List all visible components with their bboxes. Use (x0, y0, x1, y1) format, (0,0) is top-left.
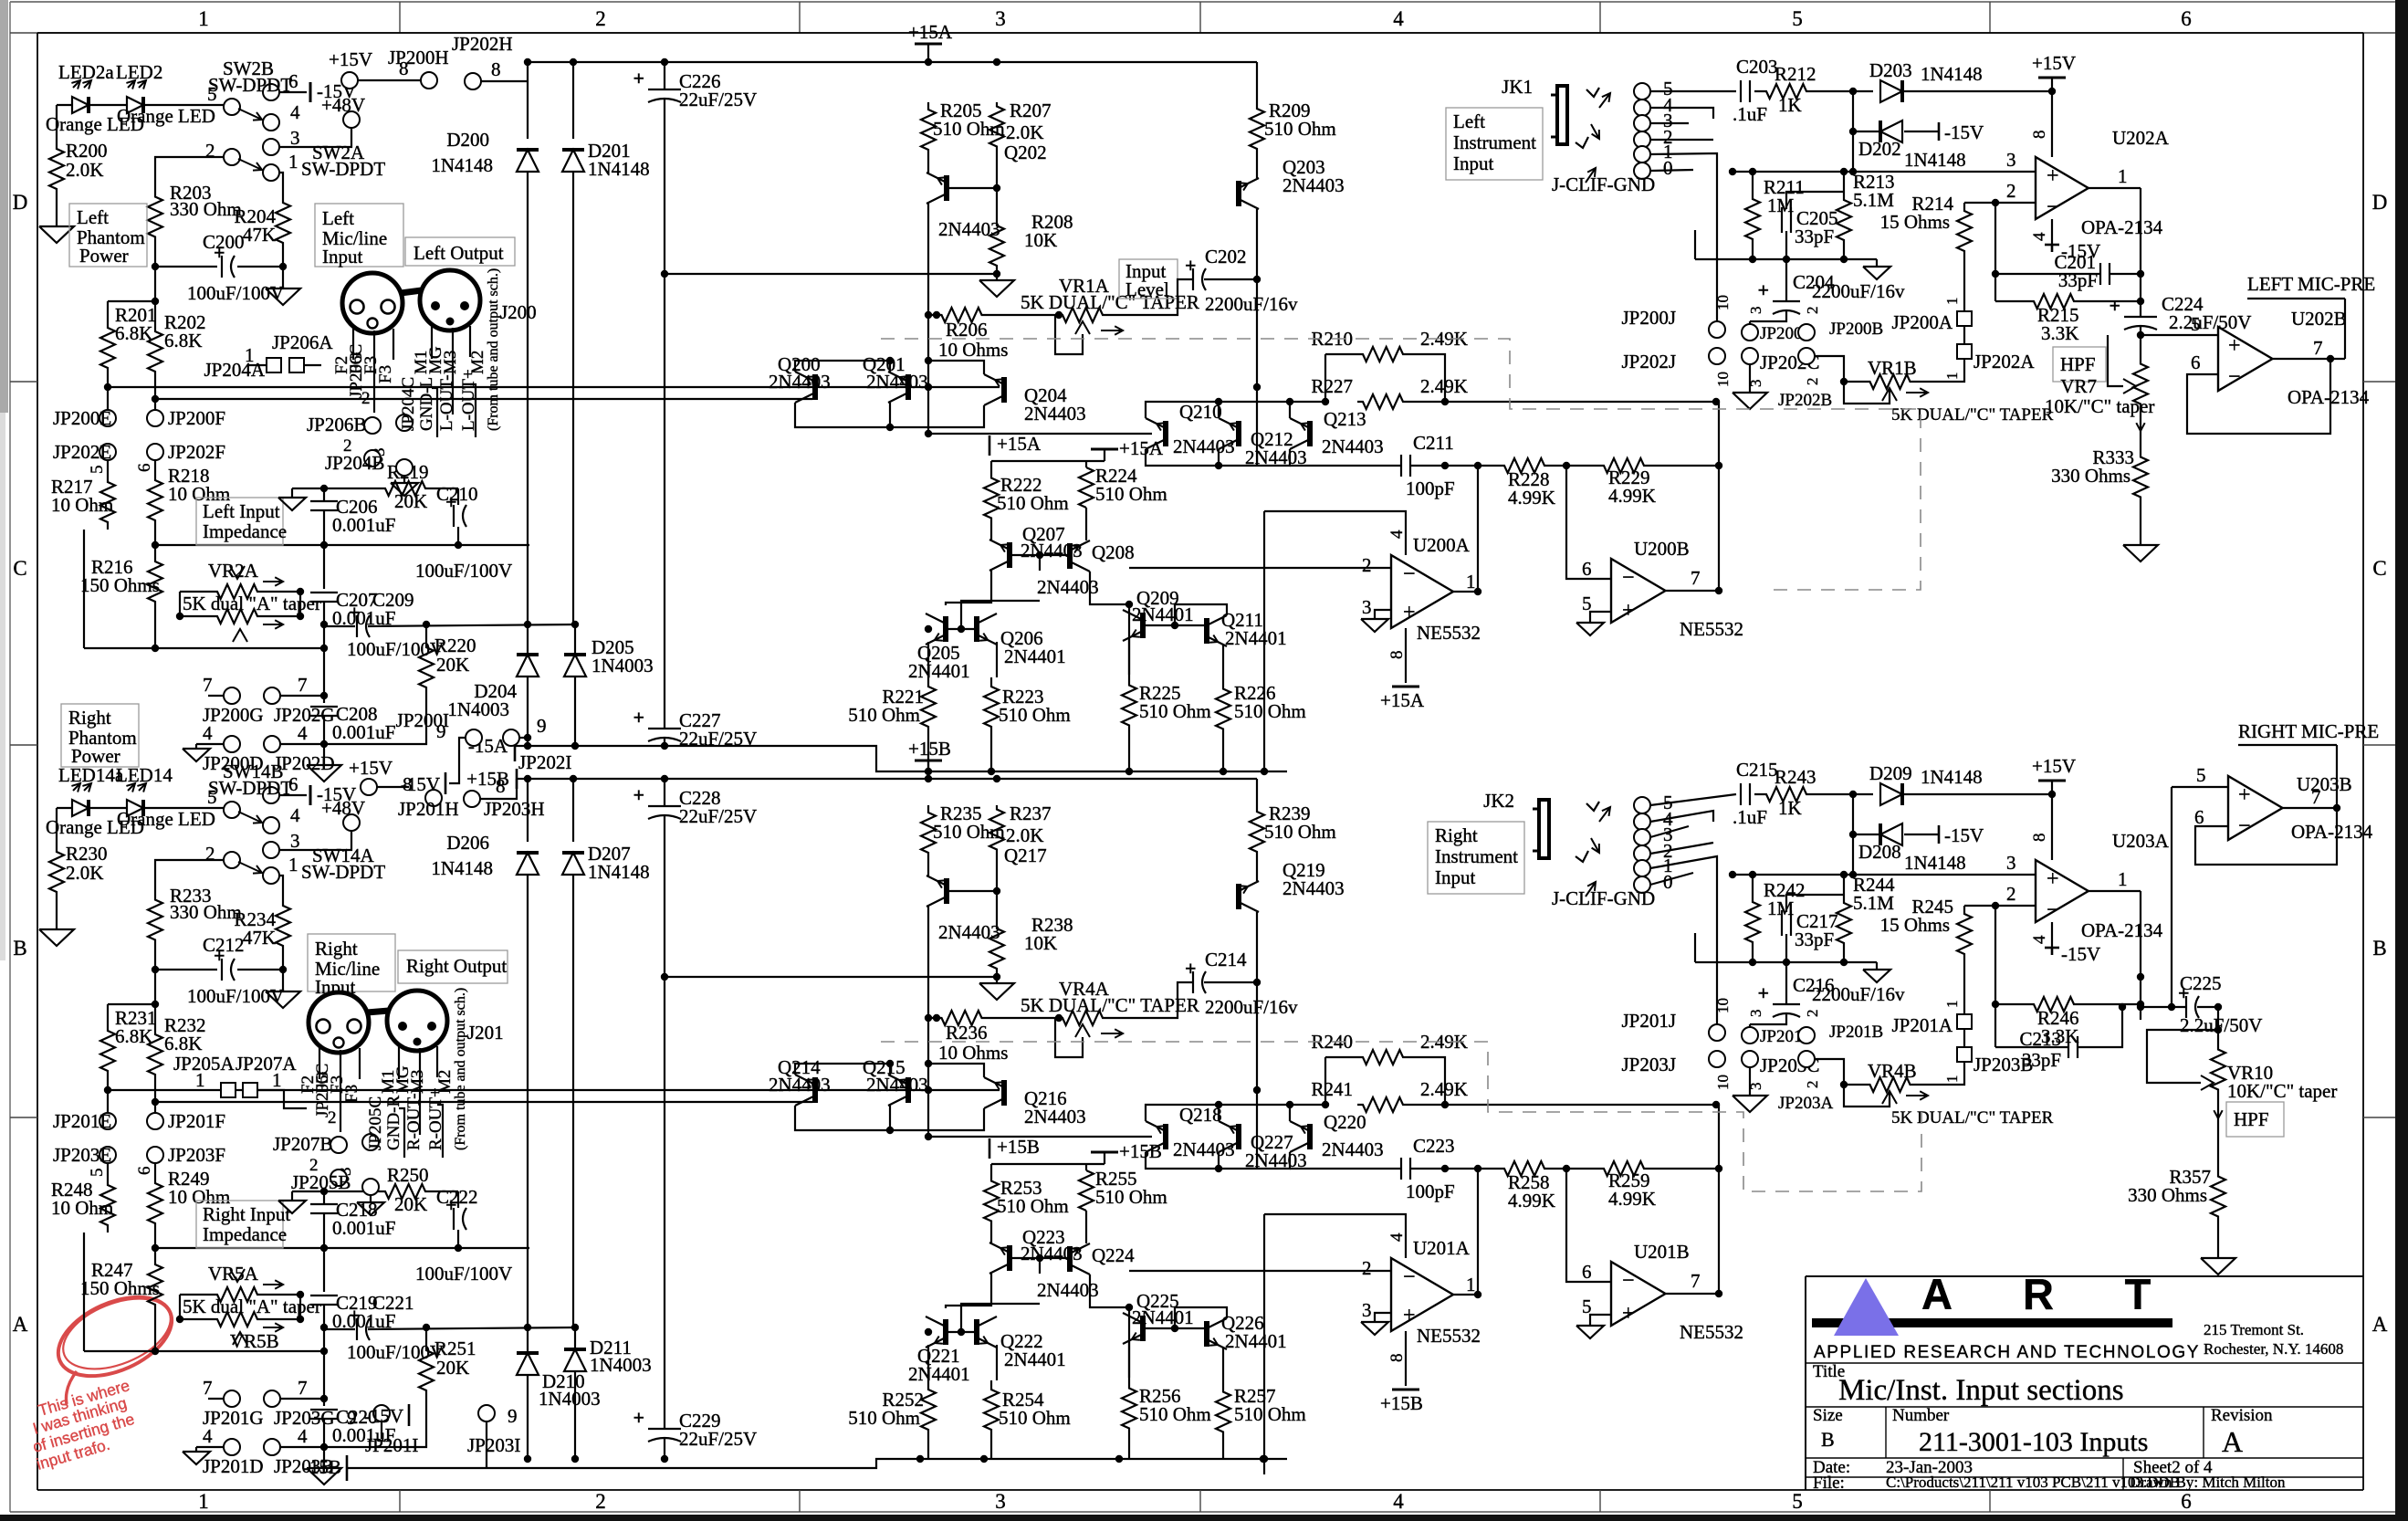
svg-text:2: 2 (2006, 180, 2016, 202)
wire (1750, 259, 1786, 324)
wire (1849, 91, 1857, 135)
svg-text:JP201I: JP201I (365, 1434, 418, 1456)
transistor Q209 (1123, 587, 1194, 641)
svg-text:F3: F3 (342, 1085, 361, 1103)
svg-text:6: 6 (135, 1167, 154, 1176)
resistor R253 (984, 1173, 1069, 1229)
net label J-CLIF-GND (1552, 173, 1655, 195)
svg-text:VR2A: VR2A (208, 560, 259, 582)
svg-text:150 Ohms: 150 Ohms (80, 1277, 160, 1299)
svg-text:4.99K: 4.99K (1508, 1190, 1555, 1212)
power -15V tick (2045, 943, 2100, 965)
svg-text:3: 3 (2006, 852, 2016, 874)
svg-text:150 Ohms: 150 Ohms (80, 574, 160, 596)
capacitor C200 (187, 231, 284, 304)
wire (1129, 638, 1223, 680)
wire (1853, 131, 1939, 132)
svg-text:-15B: -15B (303, 1456, 341, 1478)
resistor R258 (1497, 1161, 1555, 1212)
op-amp U203B (2194, 773, 2373, 843)
LED LED2 (116, 61, 215, 127)
svg-text:R: R (2023, 1270, 2054, 1318)
wire (1904, 88, 2056, 95)
ground (39, 226, 74, 243)
wire (1453, 1169, 1481, 1298)
svg-text:2: 2 (328, 1108, 337, 1128)
svg-text:2.0K: 2.0K (66, 159, 103, 181)
jumper JP203H (464, 775, 545, 820)
svg-text:0: 0 (1663, 871, 1673, 893)
svg-text:1: 1 (245, 344, 255, 366)
size field (1813, 1406, 1843, 1451)
svg-text:510 Ohm: 510 Ohm (1264, 118, 1336, 140)
svg-text:A: A (13, 1313, 28, 1336)
wire (432, 384, 476, 437)
svg-text:B: B (1821, 1428, 1835, 1451)
svg-text:1: 1 (272, 1069, 282, 1091)
resistor R206 (928, 308, 1008, 361)
note box Left Instrument Input (1446, 108, 1543, 180)
svg-text:22uF/25V: 22uF/25V (679, 1428, 757, 1450)
wire (991, 508, 1086, 571)
resistor R251 (419, 1337, 476, 1399)
LED LED2a (46, 61, 144, 135)
jumper JP201J (1621, 998, 1732, 1041)
resistor R240 (1311, 1031, 1467, 1065)
ground (1576, 623, 1604, 635)
connector J200 XLR female (342, 273, 403, 333)
svg-text:+: + (633, 1406, 644, 1429)
power +15B rail symbol (1091, 1140, 1162, 1164)
capacitor C201 (2054, 251, 2110, 291)
net label LEFT MIC-PRE (2247, 273, 2375, 299)
jack contacts (1634, 792, 1673, 893)
wire (1921, 1062, 1964, 1085)
svg-text:−: − (2047, 195, 2059, 219)
resistor R209 (1250, 100, 1336, 155)
wire (1729, 834, 2036, 878)
wire (2108, 335, 2123, 386)
svg-text:10K/"C" taper: 10K/"C" taper (2227, 1080, 2337, 1102)
wire (279, 876, 283, 895)
svg-text:LED2a: LED2a (58, 61, 114, 83)
svg-text:Q202: Q202 (1004, 142, 1047, 163)
svg-text:VR5A: VR5A (208, 1263, 259, 1285)
jumper JP200D (196, 722, 264, 774)
wire (661, 62, 668, 278)
svg-text:L-OUT-: L-OUT- (437, 374, 456, 431)
wire (2147, 1030, 2218, 1083)
jumper JP207B (273, 1108, 347, 1155)
power +15V rail symbol (2032, 52, 2076, 91)
wire (661, 779, 668, 981)
wire (524, 875, 573, 1331)
svg-text:4.99K: 4.99K (1608, 1188, 1656, 1210)
wire (1806, 871, 1877, 970)
note box Left Mic/line Input (315, 204, 403, 267)
svg-text:7: 7 (298, 674, 308, 696)
wire (152, 251, 287, 301)
svg-text:A: A (2222, 1425, 2243, 1458)
svg-text:2: 2 (595, 7, 606, 30)
svg-text:7: 7 (298, 1377, 308, 1399)
potentiometer VR2A (183, 560, 321, 642)
svg-text:−: − (1622, 1269, 1635, 1293)
svg-text:−: − (2047, 898, 2059, 922)
wire (1129, 1214, 1406, 1474)
diode D210 (517, 1353, 601, 1410)
svg-text:SW-DPDT: SW-DPDT (301, 861, 385, 883)
svg-text:JP201H: JP201H (398, 798, 459, 820)
note box HPF (2226, 1102, 2284, 1137)
wire (1749, 1067, 1751, 1096)
power +15V (349, 757, 393, 795)
svg-text:6: 6 (1582, 1261, 1592, 1283)
wire (991, 1211, 1086, 1274)
svg-text:JP200H: JP200H (388, 47, 449, 68)
potentiometer VR7 (2045, 360, 2154, 417)
power +15A rail symbol (1380, 687, 1425, 711)
svg-text:JP203I: JP203I (467, 1434, 520, 1456)
capacitor C215 (1733, 759, 1778, 828)
svg-text:Right Input: Right Input (203, 1203, 290, 1225)
svg-text:JP202A: JP202A (1974, 351, 2035, 372)
wire (155, 860, 224, 886)
capacitor C219 (310, 1292, 395, 1332)
wire (1256, 62, 1258, 102)
wire (152, 1098, 812, 1106)
wire (528, 1324, 579, 1353)
svg-text:510 Ohm: 510 Ohm (1139, 700, 1211, 722)
resistor R236 (928, 1011, 1008, 1064)
jumper JP202G (264, 674, 335, 726)
svg-text:U203B: U203B (2297, 773, 2352, 795)
svg-text:1: 1 (2118, 165, 2128, 187)
transistor Q211 (1207, 609, 1287, 649)
svg-text:F3: F3 (376, 365, 395, 383)
svg-text:R236: R236 (946, 1022, 988, 1044)
svg-text:1: 1 (195, 1069, 205, 1091)
svg-text:Instrument: Instrument (1453, 131, 1536, 153)
svg-text:+15V: +15V (329, 48, 372, 70)
svg-text:2N4403: 2N4403 (769, 1074, 831, 1096)
ART logo triangle (1834, 1278, 1899, 1336)
jumper JP202F (147, 441, 225, 463)
ART logo letters (1921, 1270, 2151, 1318)
svg-text:R212: R212 (1775, 63, 1816, 85)
dashed region outline (881, 1042, 1921, 1191)
wire (320, 1419, 328, 1468)
svg-text:510 Ohm: 510 Ohm (997, 492, 1069, 514)
svg-text:J201: J201 (467, 1022, 504, 1044)
jumper JP202C (1742, 348, 1819, 387)
svg-text:2.2uF/50V: 2.2uF/50V (2180, 1014, 2262, 1036)
jumper JP203I (467, 1405, 520, 1468)
op-amp U201B (1582, 1241, 1743, 1343)
svg-text:2: 2 (205, 843, 215, 865)
svg-text:2N4403: 2N4403 (1283, 174, 1345, 196)
svg-text:2N4401: 2N4401 (1225, 1330, 1287, 1352)
transistor Q206 (977, 614, 1066, 667)
wire (2172, 764, 2228, 1007)
svg-text:C200: C200 (203, 231, 245, 253)
wire (661, 1327, 668, 1463)
transistor Q225 (1123, 1290, 1194, 1344)
wire (1921, 359, 1964, 382)
resistor R234 (234, 895, 290, 957)
svg-text:Q208: Q208 (1092, 541, 1135, 563)
svg-text:10 Ohms: 10 Ohms (938, 1042, 1008, 1064)
svg-text:JP203J: JP203J (1621, 1054, 1676, 1075)
wire (795, 357, 894, 372)
resistor R222 (984, 470, 1069, 526)
ground (1733, 1096, 1767, 1112)
svg-text:2N4403: 2N4403 (866, 1074, 928, 1096)
svg-text:C215: C215 (1736, 759, 1778, 781)
svg-text:J-CLIF-GND: J-CLIF-GND (1552, 887, 1655, 909)
svg-text:3: 3 (290, 830, 300, 852)
svg-text:2.0K: 2.0K (1006, 121, 1043, 143)
svg-text:C214: C214 (1205, 949, 1247, 970)
svg-text:C212: C212 (203, 934, 245, 956)
svg-text:8: 8 (2030, 131, 2049, 140)
svg-text:.1uF: .1uF (1733, 103, 1767, 125)
svg-text:C202: C202 (1205, 246, 1247, 267)
capacitor C218 (310, 1199, 395, 1239)
svg-text:C225: C225 (2180, 972, 2222, 994)
jumper JP204A (204, 344, 281, 381)
wire (2187, 359, 2330, 434)
svg-text:3: 3 (1362, 1299, 1372, 1321)
title field label (1813, 1362, 1845, 1381)
resistor R233 (148, 885, 242, 954)
wire (84, 1233, 328, 1355)
wire (56, 199, 58, 226)
svg-text:5: 5 (88, 1169, 107, 1178)
jumper JP202B (1778, 348, 1832, 410)
svg-text:6: 6 (288, 773, 298, 795)
power -15V tick (401, 772, 445, 795)
wire (1253, 858, 1261, 1137)
drawing title (1838, 1374, 2124, 1407)
svg-text:JP202F: JP202F (168, 441, 225, 463)
resistor R202 (148, 311, 206, 382)
resistor R228 (1497, 458, 1555, 509)
svg-text:+: + (2238, 783, 2251, 807)
ground (1361, 1322, 1388, 1335)
capacitor C220 (310, 1406, 395, 1446)
capacitor C211 (1401, 432, 1455, 499)
svg-text:3: 3 (1362, 596, 1372, 618)
svg-text:5: 5 (88, 466, 107, 475)
capacitor C210 (415, 483, 512, 582)
transistor Q207 (989, 523, 1083, 571)
LED LED14a (46, 764, 144, 838)
svg-text:330 Ohms: 330 Ohms (2051, 465, 2131, 487)
resistor R248 (51, 1178, 115, 1233)
capacitor C229 (633, 1406, 757, 1450)
jumper pad (370, 448, 413, 477)
svg-text:2N4401: 2N4401 (908, 660, 970, 682)
svg-text:JP203F: JP203F (168, 1144, 225, 1166)
wire (2051, 91, 2053, 245)
svg-text:D202: D202 (1858, 138, 1901, 160)
wire (1995, 1003, 2126, 1047)
diode D208 (1858, 823, 1966, 874)
jumper JP203G (264, 1377, 335, 1429)
svg-text:JP205B: JP205B (291, 1171, 351, 1193)
resistor R246 (2026, 997, 2081, 1047)
svg-text:3.3K: 3.3K (2041, 322, 2078, 344)
svg-text:+15B: +15B (997, 1136, 1040, 1158)
wire (1566, 466, 1611, 579)
svg-text:NE5532: NE5532 (1417, 1325, 1481, 1347)
jumper JP203B (1957, 1047, 2033, 1075)
connector J201 XLR male (367, 991, 504, 1051)
wire (1992, 203, 2141, 301)
revision field (2211, 1406, 2273, 1458)
svg-text:C: C (2372, 557, 2386, 580)
wire (1849, 794, 1857, 838)
capacitor C202 (1185, 246, 1298, 315)
wire (1146, 434, 1290, 469)
resistor R215 (2026, 294, 2081, 344)
svg-text:OPA-2134: OPA-2134 (2081, 216, 2163, 238)
resistor R207 (989, 100, 1052, 151)
svg-text:+15A: +15A (908, 21, 953, 43)
wire (108, 1081, 155, 1102)
svg-text:1: 1 (198, 1490, 209, 1513)
op-amp U202A (2030, 127, 2170, 241)
svg-text:APPLIED RESEARCH AND TECHNOLOG: APPLIED RESEARCH AND TECHNOLOGY (1814, 1343, 2200, 1362)
wire (2137, 313, 2218, 360)
svg-text:−: − (1622, 566, 1635, 590)
svg-text:2: 2 (1804, 1010, 1821, 1018)
svg-text:(From tube and output sch.): (From tube and output sch.) (486, 268, 501, 431)
wire (88, 1163, 155, 1178)
resistor R205 (921, 100, 1005, 157)
wire (1590, 1315, 1611, 1326)
svg-text:+15B: +15B (1380, 1392, 1423, 1414)
capacitor C206 (310, 496, 395, 536)
svg-text:510 Ohm: 510 Ohm (848, 704, 920, 726)
wire (1815, 1059, 1890, 1107)
svg-text:6.8K: 6.8K (164, 330, 202, 351)
svg-text:D208: D208 (1858, 841, 1901, 863)
note box Input Level (1119, 259, 1178, 300)
svg-text:2N4401: 2N4401 (908, 1363, 970, 1385)
wire (925, 601, 1040, 677)
svg-text:VR1B: VR1B (1868, 357, 1917, 379)
svg-text:D200: D200 (446, 129, 489, 151)
wire (1146, 1137, 1290, 1172)
wire (324, 621, 578, 628)
wire (664, 274, 665, 624)
potentiometer VR1B (1859, 357, 2054, 425)
svg-text:R243: R243 (1775, 766, 1816, 788)
capacitor C222 (415, 1186, 512, 1285)
svg-text:4: 4 (1387, 530, 1407, 539)
svg-text:6: 6 (2191, 351, 2201, 373)
op-amp U203A (2030, 830, 2170, 944)
wire (528, 621, 579, 655)
resistor R214 (1880, 193, 1972, 259)
svg-text:1: 1 (288, 854, 298, 876)
svg-text:15 Ohms: 15 Ohms (1880, 914, 1950, 936)
LED LED14 (116, 764, 215, 830)
wire (1995, 274, 2144, 317)
wire (248, 364, 321, 366)
ground (1361, 619, 1388, 632)
svg-text:Right Output: Right Output (406, 955, 507, 977)
svg-text:2: 2 (309, 1156, 319, 1175)
resistor R200 (49, 139, 108, 199)
svg-text:+: + (2047, 164, 2059, 188)
svg-text:5: 5 (207, 83, 217, 105)
svg-text:4: 4 (290, 804, 300, 826)
svg-text:15 Ohms: 15 Ohms (1880, 211, 1950, 233)
net label RIGHT MIC-PRE (2238, 720, 2379, 745)
svg-text:Left Input: Left Input (203, 500, 280, 522)
wire (108, 298, 159, 321)
capacitor C208 (310, 703, 395, 743)
svg-text:9: 9 (537, 715, 547, 737)
ground (39, 929, 74, 946)
wire (1146, 398, 1325, 418)
svg-text:330 Ohm: 330 Ohm (170, 901, 242, 923)
svg-text:C211: C211 (1413, 432, 1454, 454)
wire (524, 775, 1257, 782)
transistor Q214 (769, 1056, 831, 1106)
svg-text:JP201J: JP201J (1621, 1010, 1676, 1032)
wire (152, 528, 324, 559)
capacitor C214 (1185, 949, 1298, 1018)
power +15B tick (466, 768, 528, 790)
wire (991, 461, 1105, 470)
svg-text:1: 1 (1466, 1274, 1476, 1295)
svg-text:C203: C203 (1736, 56, 1778, 78)
capacitor C213 (2019, 1028, 2078, 1071)
wire (279, 794, 307, 796)
svg-text:C209: C209 (372, 589, 414, 611)
svg-text:JP202B: JP202B (1778, 391, 1832, 410)
svg-text:2200uF/16v: 2200uF/16v (1812, 983, 1905, 1005)
svg-text:Input: Input (1435, 866, 1475, 888)
wire (2282, 745, 2340, 812)
svg-text:9: 9 (436, 720, 446, 742)
svg-text:5: 5 (207, 786, 217, 808)
svg-text:JP203E: JP203E (53, 1144, 111, 1166)
diode D207 (562, 843, 650, 883)
wire (176, 588, 304, 620)
svg-text:33pF: 33pF (2058, 269, 2098, 291)
svg-text:5: 5 (2196, 764, 2206, 786)
svg-text:510 Ohm: 510 Ohm (848, 1407, 920, 1429)
svg-text:A: A (1921, 1270, 1953, 1318)
svg-text:2N4403: 2N4403 (1322, 1138, 1384, 1160)
svg-text:Q218: Q218 (1179, 1104, 1222, 1126)
capacitor C225 (2178, 972, 2262, 1036)
ground (2123, 545, 2158, 561)
svg-text:2: 2 (205, 140, 215, 162)
wire (2140, 498, 2141, 545)
svg-text:8: 8 (491, 58, 501, 80)
pin labels female (332, 344, 395, 398)
resistor R201 (100, 304, 157, 378)
resistor R203 (148, 182, 242, 251)
svg-text:6: 6 (1582, 558, 1592, 580)
op-amp U202B (2191, 308, 2370, 408)
